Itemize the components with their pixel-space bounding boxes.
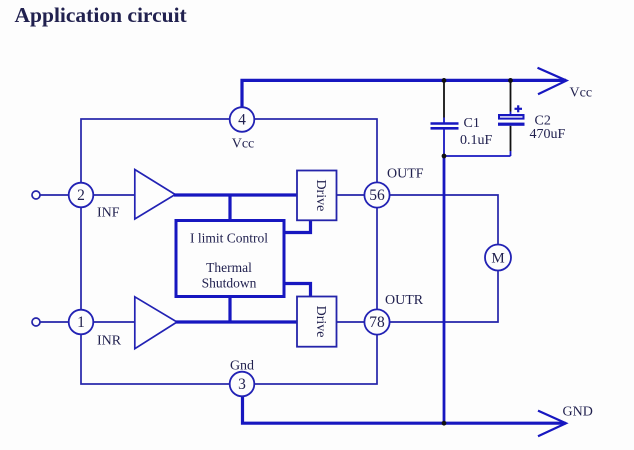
wire amp R output to Drive R (thick) [176,320,297,323]
capacitor C1 lead bottom [443,130,445,157]
svg-text:C1: C1 [464,116,480,131]
wire control box right to Drive R top (thick) [284,284,311,298]
pin 78 circle [364,309,389,334]
svg-text:M: M [491,251,504,267]
junction dot Vcc/C2 [508,78,513,83]
wire motor bottom to pin 78 OUTR [390,271,499,323]
svg-text:470uF: 470uF [530,127,566,142]
input terminal F [32,191,40,199]
svg-text:GND: GND [563,404,593,419]
capacitor C1 plates [431,122,459,125]
op-amp R triangle [135,297,177,349]
Vcc arrowhead [538,68,567,95]
Vcc rail from pin 4 (thick) [242,80,566,107]
svg-text:3: 3 [238,376,246,393]
capacitor C2 plus sign [515,108,523,110]
wire control box right to Drive F bottom (thick) [284,221,311,233]
svg-text:OUTF: OUTF [387,166,424,181]
Drive F box [297,171,337,221]
svg-text:Application circuit: Application circuit [15,3,188,27]
junction dot Vcc/C1 [442,78,447,83]
wire pin 56 OUTF to motor top [390,195,499,245]
capacitor C2 lead top (black) [510,80,512,111]
wire input terminal R to pin 1 [40,321,69,323]
wire branch control box bottom to amp R line (thick) [228,296,231,322]
op-amp F triangle [135,170,175,220]
control box U1 (I limit / thermal shutdown) [176,221,284,297]
svg-text:Vcc: Vcc [232,137,255,152]
pin 56 circle [364,182,389,207]
wire cap junction down to GND rail (thick) [443,156,446,423]
junction dot C1 bottom [442,154,447,159]
input terminal R [32,318,40,326]
pin 4 circle [230,107,255,132]
capacitor C2 top plate (double) [498,114,525,120]
wire pin 1 to amp R input [94,321,135,323]
capacitor C1 lead top (black) [443,80,445,117]
pin 2 circle [69,183,94,208]
capacitor C2 bottom plate [498,123,525,126]
svg-text:Gnd: Gnd [230,359,254,374]
svg-text:Thermal: Thermal [206,260,252,275]
GND arrowhead [538,411,566,437]
svg-text:Shutdown: Shutdown [202,276,257,291]
IC boundary frame [81,119,377,384]
svg-text:4: 4 [238,112,246,129]
junction dot GND rail [442,421,447,426]
wire pin 2 to amp F input [94,194,135,196]
capacitor C2 lead bottom (black) [510,126,512,151]
wire Drive F to pin 56 [337,194,366,196]
svg-text:56: 56 [369,187,385,204]
svg-text:0.1uF: 0.1uF [460,133,493,148]
svg-text:INF: INF [97,206,120,221]
svg-text:1: 1 [77,314,85,331]
svg-text:OUTR: OUTR [385,293,424,308]
pin 3 circle [230,372,255,397]
wire Drive R to pin 78 [337,321,366,323]
svg-text:2: 2 [77,187,85,204]
Drive R box [297,297,337,347]
svg-text:I limit Control: I limit Control [190,231,268,246]
svg-text:Drive: Drive [313,306,328,338]
svg-text:Drive: Drive [313,179,328,211]
svg-text:78: 78 [369,314,385,331]
pin 1 circle [69,310,94,335]
motor M circle [485,245,511,271]
GND rail from pin 3 (thick) [243,397,566,424]
wire C1/C2 bottom connector [444,155,511,157]
wire input terminal F to pin 2 [40,194,69,196]
svg-text:Vcc: Vcc [570,86,593,101]
wire amp F output to Drive F (thick) [174,193,297,196]
wire branch amp F line to control box top (thick) [228,195,231,221]
svg-text:INR: INR [97,334,122,349]
